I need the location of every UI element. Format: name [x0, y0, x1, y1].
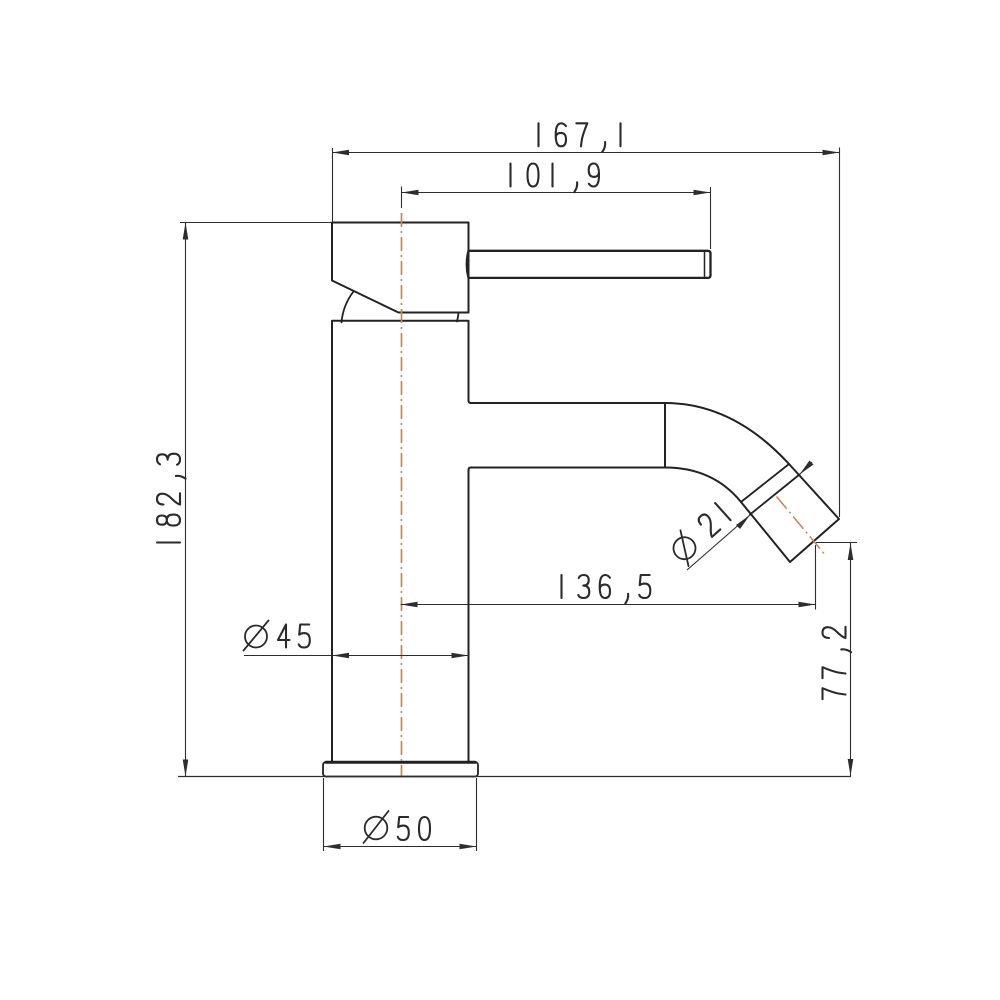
- label dia45 symbol: [244, 621, 269, 651]
- dim 167,1 extension left: [332, 148, 334, 222]
- dim dia50 line: [324, 846, 477, 848]
- dim dia45 line: [244, 655, 469, 657]
- dim 101,9 extension right: [710, 187, 712, 249]
- baseline counter line: [178, 776, 851, 778]
- arrow dia21 outer: [800, 461, 814, 475]
- arrow dia45 right: [452, 653, 469, 659]
- handle lever: [467, 251, 711, 278]
- arrow dia50 right: [460, 844, 477, 850]
- dim dia21 leader: [687, 515, 750, 570]
- arrow dia50 left: [324, 844, 341, 850]
- centerline spout: [777, 497, 825, 554]
- label 167,1: [539, 123, 621, 152]
- arrow 167,1 left: [332, 150, 349, 156]
- dim dia50 extension left: [323, 778, 325, 851]
- dim 77,2 extension top: [816, 542, 857, 544]
- faucet head outline: [332, 223, 469, 313]
- arrow 182,3 top: [183, 223, 189, 240]
- arrow 77,2 top: [848, 543, 854, 560]
- dim 101,9 extension left: [401, 187, 403, 209]
- spout joint line B: [750, 475, 800, 515]
- arrow 101,9 left: [402, 190, 419, 196]
- dim dia21 tail: [800, 462, 813, 475]
- arrow dia45 left: [332, 653, 349, 659]
- dim 136,5 line: [401, 604, 816, 606]
- handle end cap line: [704, 251, 706, 277]
- spout bend inner: [665, 468, 741, 503]
- dim 182,3 extension top: [180, 222, 331, 224]
- spout joint line A: [741, 464, 789, 502]
- arrow 101,9 right: [694, 190, 711, 196]
- spout bend outer: [665, 403, 789, 464]
- label 77,2: [823, 627, 852, 699]
- label dia50 digits: [398, 817, 430, 840]
- dim 101,9 line: [402, 192, 711, 194]
- label 101,9: [511, 164, 600, 193]
- dim 167,1 line: [332, 152, 840, 154]
- centerline vertical: [401, 213, 403, 776]
- dim 77,2 line: [850, 543, 852, 776]
- dim 136,5 extension: [815, 545, 817, 610]
- label dia50 symbol: [364, 811, 389, 843]
- label 182,3: [157, 454, 186, 543]
- body cylinder: [332, 321, 471, 762]
- arrow dia21 inner: [736, 515, 750, 529]
- arrow 167,1 right: [823, 150, 840, 156]
- label dia45 digits: [278, 625, 310, 648]
- dim dia50 extension right: [476, 778, 478, 851]
- label 136,5: [562, 575, 651, 604]
- label dia21 symbol: [666, 501, 735, 568]
- ball joint left arc: [342, 292, 354, 323]
- spout arm: [471, 403, 665, 468]
- base flange: [323, 762, 478, 777]
- dim 167,1 extension right: [839, 148, 841, 518]
- base flange top thick edge: [326, 761, 475, 764]
- dim 182,3 line: [185, 223, 187, 777]
- arrow 77,2 bottom: [848, 759, 854, 776]
- arrow 136,5 left: [401, 602, 418, 608]
- arrow 182,3 bottom: [183, 760, 189, 777]
- spout tip tube: [741, 464, 839, 562]
- arrow 136,5 right: [799, 602, 816, 608]
- ball joint right arc: [457, 313, 459, 322]
